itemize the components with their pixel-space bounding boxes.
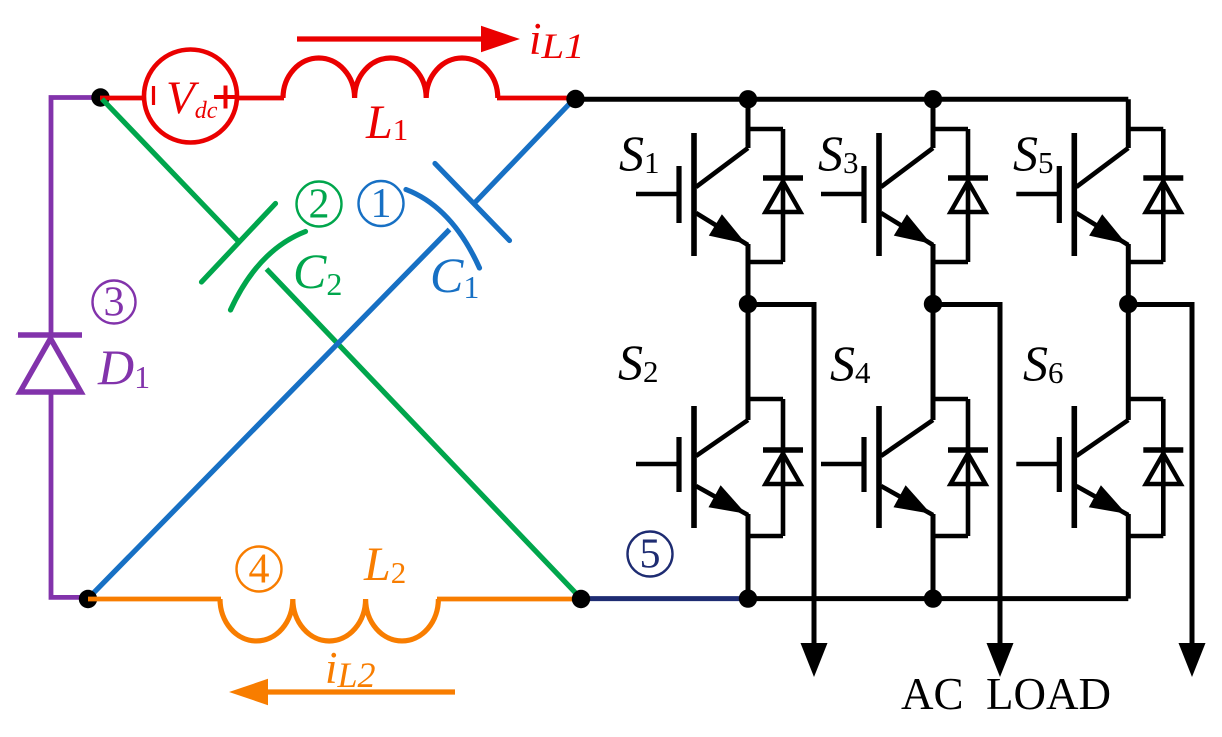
- svg-text:1: 1: [371, 181, 392, 227]
- node phase 2 midpoint: [924, 295, 942, 313]
- arrow phase output 2 to AC load: [987, 643, 1014, 677]
- node top rail leg2: [924, 90, 942, 108]
- IGBT S4 with anti-parallel diode: [821, 304, 988, 599]
- wire orange: inductor L2 to node D: [437, 597, 581, 602]
- wire orange: node C to inductor L2: [88, 597, 221, 602]
- node label circled 2: [297, 182, 342, 228]
- wire navy: node D to inverter bottom rail: [581, 596, 750, 601]
- wire red: node A to source: [100, 96, 144, 101]
- svg-text:5: 5: [640, 532, 661, 578]
- node label circled 3: [93, 280, 136, 326]
- node label circled 5: [628, 532, 673, 578]
- svg-text:2: 2: [309, 182, 330, 228]
- arrow phase output 1 to AC load: [801, 643, 828, 677]
- wire blue: node B to capacitor C1 plate: [474, 99, 574, 204]
- wire purple top-left: node A to corner to diode cathode: [51, 98, 104, 336]
- IGBT S3 with anti-parallel diode: [821, 99, 988, 304]
- current arrow iL1: [297, 26, 520, 52]
- wire black top DC rail: [574, 97, 1128, 102]
- node label circled 1: [359, 181, 404, 227]
- node D (bottom X junction): [572, 590, 590, 608]
- diode D1: [18, 335, 82, 392]
- wire green: node A to capacitor C2 plate: [102, 99, 240, 243]
- node B (top X junction): [566, 90, 584, 108]
- node phase 3 midpoint: [1119, 295, 1137, 313]
- svg-text:4: 4: [249, 547, 270, 593]
- node top rail leg1: [739, 90, 757, 108]
- node A (top-left junction): [91, 88, 109, 106]
- svg-text:3: 3: [104, 280, 125, 326]
- wire blue: capacitor C1 to node C: [88, 230, 450, 599]
- wire green: capacitor C2 to node D: [267, 269, 582, 599]
- node phase 1 midpoint: [739, 295, 757, 313]
- wire red: inductor L1 to node B: [497, 96, 576, 101]
- node C (bottom-left junction): [79, 590, 97, 608]
- arrow phase output 3 to AC load: [1179, 643, 1206, 677]
- capacitor C1: [406, 164, 510, 269]
- IGBT S1 with anti-parallel diode: [636, 99, 803, 304]
- wire black bottom rail: [748, 596, 1128, 601]
- wire phase output 1: [748, 305, 814, 646]
- node bottom rail leg1: [739, 589, 757, 607]
- inductor L1: [283, 58, 498, 98]
- wire red: source to inductor L1: [236, 96, 284, 101]
- wire purple bottom-left: diode anode to corner to node C: [51, 392, 86, 597]
- capacitor C2: [202, 204, 306, 311]
- wire phase output 2: [933, 305, 1000, 646]
- node label circled 4: [237, 547, 282, 593]
- svg-text:AC LOAD: AC LOAD: [901, 669, 1111, 719]
- wire phase output 3: [1128, 305, 1192, 646]
- current arrow iL2: [229, 679, 455, 705]
- IGBT S2 with anti-parallel diode: [636, 304, 803, 599]
- voltage source Vdc: [144, 50, 237, 143]
- node bottom rail leg2: [924, 589, 942, 607]
- inductor L2: [220, 599, 438, 641]
- IGBT S6 with anti-parallel diode: [1016, 304, 1183, 599]
- IGBT S5 with anti-parallel diode: [1016, 99, 1183, 304]
